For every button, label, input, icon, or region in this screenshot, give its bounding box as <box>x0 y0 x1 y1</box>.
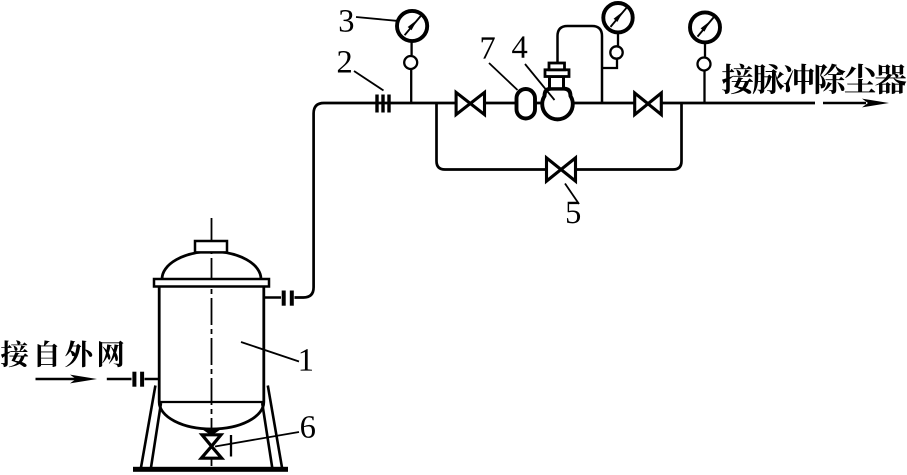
stand right leg inner line <box>262 403 272 468</box>
leader to label 1 <box>241 342 299 362</box>
stand left leg inner line <box>151 403 161 468</box>
label 5 (bypass valve) <box>567 202 580 224</box>
outlet coupling bars <box>284 291 292 306</box>
label 4 (pressure reducing valve) <box>512 36 527 57</box>
filter 7 (capsule) <box>517 89 536 119</box>
text: 接自外网 (from external network) <box>1 340 124 367</box>
gauge 2 connection stem and jog to impulse line <box>602 33 618 69</box>
shutoff valve (downstream, on header) <box>635 93 662 115</box>
bypass valve 5 <box>547 158 576 181</box>
gauge 3 siphon pigtail <box>698 58 711 71</box>
label 1 (air storage tank) <box>301 349 312 370</box>
stand base plate <box>133 467 288 472</box>
stand right leg outer line <box>268 386 282 468</box>
label 2 (coupling) <box>338 51 351 73</box>
label 6 leader tick <box>230 435 232 457</box>
gauge 3 stem down to header <box>703 43 706 104</box>
tank outlet pipe to riser <box>264 296 281 299</box>
inlet stub into tank wall <box>145 378 160 381</box>
drain nozzle (filled) under tank bottom <box>201 429 221 436</box>
leader to label 3 <box>356 17 397 21</box>
label 3 (pressure gauge) <box>340 10 353 32</box>
leader to label 5 <box>565 184 579 205</box>
gauge 2 siphon pigtail <box>610 46 622 58</box>
inlet pipe from external network <box>107 378 132 381</box>
drain valve 6 (vertical bowtie) <box>201 435 221 458</box>
leader to label 4 <box>525 64 555 100</box>
label 7 (filter) <box>482 37 495 58</box>
inlet flow arrowhead <box>70 375 97 384</box>
tank 1 cylinder shell <box>159 287 264 403</box>
tank bottom seam line <box>159 401 264 403</box>
outlet flow arrowhead <box>862 99 889 108</box>
shutoff valve (upstream, on header) <box>456 92 484 114</box>
tank centerline (dash-dot) <box>211 218 213 466</box>
pressure gauge (right) <box>690 12 720 42</box>
valve 4 bonnet flange <box>545 70 569 77</box>
text: 接脉冲除尘器 (to pulse dust collector) <box>722 64 906 95</box>
pressure reducing valve 4 body <box>542 89 573 120</box>
tank dome head <box>162 252 261 280</box>
tank top nozzle <box>195 241 227 252</box>
label 6 (drain valve) <box>301 416 315 438</box>
coupling 2: three bars on header <box>377 95 389 113</box>
leader to label 7 <box>489 63 518 90</box>
tank dished bottom <box>159 402 264 429</box>
main header pipe from riser to dust collector outlet <box>324 102 815 105</box>
pressure gauge 3 (left, label 3) <box>397 11 427 41</box>
gauge 1 stem down to header <box>410 41 413 103</box>
gauge 1 siphon pigtail <box>404 56 417 69</box>
impulse line loop over pressure reducing valve 4 <box>558 26 603 103</box>
outlet flow arrow line <box>823 102 866 105</box>
tank top flange <box>154 279 269 287</box>
stand left leg outer line <box>141 386 155 468</box>
bypass line below header with rounded corners <box>437 103 682 170</box>
valve 4 top cap <box>549 63 565 70</box>
leader to label 2 <box>354 71 384 91</box>
valve 4 neck <box>550 77 564 89</box>
leader to label 6 <box>215 432 299 447</box>
riser pipe from tank outlet up to header (rounded corners) <box>295 103 325 298</box>
inlet coupling bars <box>134 372 142 387</box>
pressure gauge (middle) <box>603 3 632 32</box>
inlet flow arrow line <box>36 378 79 381</box>
